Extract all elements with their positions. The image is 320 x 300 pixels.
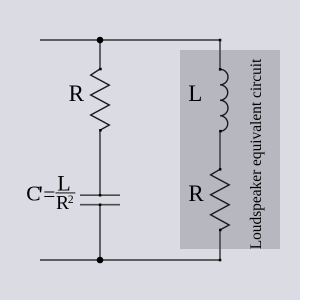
svg-text:C: C xyxy=(26,182,40,206)
svg-text:=: = xyxy=(43,182,55,206)
svg-text:L: L xyxy=(57,171,70,196)
svg-text:R: R xyxy=(188,181,204,206)
svg-text:R: R xyxy=(69,81,85,106)
svg-text:2: 2 xyxy=(68,194,74,206)
svg-text:L: L xyxy=(188,81,202,106)
svg-text:Loudspeaker equivalent circuit: Loudspeaker equivalent circuit xyxy=(248,58,265,249)
